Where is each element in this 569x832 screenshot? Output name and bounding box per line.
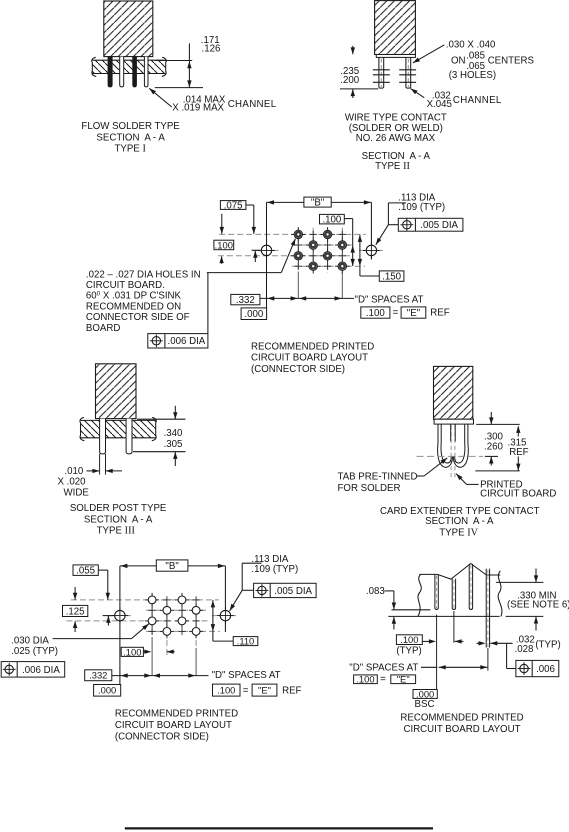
svg-text:.083: .083 <box>366 586 385 597</box>
svg-text:CONNECTOR SIDE OF: CONNECTOR SIDE OF <box>86 312 190 323</box>
centerline cross fig3 <box>310 252 317 259</box>
svg-text:.000: .000 <box>98 685 116 696</box>
leader .030 X .040 fig2 <box>413 45 445 63</box>
bottom datum dimension line fig3 <box>260 297 354 299</box>
connector base plate fig2 <box>376 55 415 58</box>
centerline cross fig3 <box>295 241 302 248</box>
dimension arrow top .340/.305 fig4 <box>174 406 176 419</box>
.083 leader fig7 <box>384 590 394 592</box>
svg-text:.100: .100 <box>123 646 141 657</box>
centerline cross fig6 <box>178 607 185 614</box>
leader to pin channel fig1 <box>149 88 172 107</box>
svg-text:RECOMMENDED PRINTED: RECOMMENDED PRINTED <box>115 709 238 720</box>
.000 datum box fig3 <box>241 308 267 320</box>
svg-text:.260: .260 <box>484 442 503 453</box>
.300/.260 dimension arrows fig5 <box>490 412 492 424</box>
pin width dimension arrows fig4 <box>87 470 100 472</box>
pcb hole fig6 <box>145 593 159 607</box>
.100 upper dimension box fig3 <box>320 214 345 224</box>
.330 MIN extension line fig7 <box>496 581 544 583</box>
column centerline 2 fig6 <box>166 604 168 655</box>
svg-text:(CONNECTOR SIDE): (CONNECTOR SIDE) <box>115 732 209 743</box>
pcb hole fig3 <box>335 259 350 274</box>
datum extension line right mounting hole fig3 <box>370 202 372 259</box>
svg-text:CIRCUIT BOARD LAYOUT: CIRCUIT BOARD LAYOUT <box>404 724 521 735</box>
svg-text:SECTION A - A: SECTION A - A <box>84 514 153 525</box>
.150 dimension box fig3 <box>379 271 404 281</box>
dimension arrows .235/.200 fig2 <box>352 46 354 54</box>
.000 datum box fig7 <box>413 690 437 699</box>
svg-text:RECOMMENDED ON: RECOMMENDED ON <box>86 301 181 312</box>
svg-text:CIRCUIT BOARD LAYOUT: CIRCUIT BOARD LAYOUT <box>251 353 368 364</box>
row centerline 1 fig6 <box>71 599 219 601</box>
leader tab pre-tinned fig5 <box>417 475 425 477</box>
column centerline 1 fig3 <box>297 228 299 272</box>
pcb hole fig6 <box>175 614 189 628</box>
svg-text:.085: .085 <box>466 50 485 61</box>
slot1 centerline extension fig7 <box>436 615 438 690</box>
centerline cross fig3 <box>310 231 317 238</box>
svg-text:.100: .100 <box>215 239 233 250</box>
.150 dimension line fig3 <box>359 235 361 276</box>
.075 dimension leader and arrows fig3 <box>246 204 254 206</box>
row centerline 3 fig6 <box>67 620 211 622</box>
svg-text:TYPE II: TYPE II <box>375 161 410 172</box>
svg-text:FOR SOLDER: FOR SOLDER <box>338 483 401 494</box>
svg-text:.305: .305 <box>164 439 183 450</box>
board break line left fig1 <box>92 57 97 76</box>
svg-text:.150: .150 <box>382 272 401 283</box>
.332 datum box fig3 <box>231 294 260 304</box>
contact finger left fig5 <box>438 424 453 467</box>
.100 spacing box fig6 <box>121 647 143 656</box>
arrow to mounting hole centerline fig6 <box>107 616 109 626</box>
svg-text:.100: .100 <box>322 215 341 226</box>
connector base plate fig5 <box>434 419 473 424</box>
connector body (hatched block) fig2 <box>375 1 416 55</box>
svg-text:=: = <box>380 674 386 685</box>
svg-text:.055: .055 <box>76 566 95 577</box>
.110 dimension line fig6 <box>212 600 214 641</box>
mounting hole right fig6 <box>217 607 234 624</box>
.125 dimension arrow fig6 <box>74 621 76 632</box>
board top edge polyline fig7 <box>419 564 500 580</box>
D spaces dimension line fig7 <box>421 666 437 668</box>
.330 MIN arrows fig7 <box>535 569 537 583</box>
board break line left fig7 <box>418 574 421 616</box>
extension line at contact tips fig5 <box>475 470 519 472</box>
column centerline 1 fig6 <box>151 593 153 637</box>
pcb hole fig3 <box>320 249 335 264</box>
mounting hole left fig6 <box>112 607 129 624</box>
pcb hole fig3 <box>291 227 306 242</box>
svg-text:CIRCUIT BOARD: CIRCUIT BOARD <box>480 489 556 500</box>
wire contact pin right fig2 <box>406 57 411 89</box>
svg-text:X .019 MAX: X .019 MAX <box>172 102 224 113</box>
horizontal centerline through contact mouth fig5 <box>417 455 484 457</box>
svg-text:"D" SPACES AT: "D" SPACES AT <box>212 670 281 681</box>
svg-text:.100: .100 <box>400 634 418 645</box>
svg-text:600 X .031 DP C'SINK: 600 X .031 DP C'SINK <box>86 291 182 302</box>
centerline cross fig6 <box>163 596 170 603</box>
column centerline 3 fig3 <box>327 228 329 273</box>
.125 dimension box fig6 <box>63 605 88 616</box>
svg-text:.125: .125 <box>66 606 85 617</box>
centerline cross fig6 <box>149 607 156 614</box>
board break line left fig4 <box>80 417 85 440</box>
pcb hole fig6 <box>189 624 203 638</box>
contact hole tick marks left pin fig2 <box>373 69 390 71</box>
board bottom edge fig7 <box>388 615 499 617</box>
row centerline 2 fig3 <box>292 244 353 246</box>
.100 upper dimension leader fig3 <box>344 218 352 220</box>
svg-text:"D" SPACES AT: "D" SPACES AT <box>355 294 424 305</box>
.100 left dimension arrows fig3 <box>221 256 223 263</box>
svg-text:.110: .110 <box>237 636 255 647</box>
svg-text:NO. 26 AWG MAX: NO. 26 AWG MAX <box>356 133 436 144</box>
extension line at pin tips fig4 <box>133 451 186 453</box>
svg-text:.006: .006 <box>536 664 555 675</box>
bottom datum dimension line fig6 <box>112 675 209 677</box>
slot4 centerline extension fig7 <box>487 648 489 671</box>
contact finger right fig5 <box>454 424 469 467</box>
svg-text:CHANNEL: CHANNEL <box>453 95 502 106</box>
leader for .113 dia holes fig6 <box>242 562 261 564</box>
board break line right fig1 <box>162 57 167 76</box>
svg-text:X .020: X .020 <box>58 476 87 487</box>
mounting hole centerline left fig6 <box>107 615 133 617</box>
svg-text:REF: REF <box>509 447 528 458</box>
board break line right fig4 <box>152 417 157 440</box>
.055 dimension leader and arrows fig6 <box>98 569 108 571</box>
svg-text:.075: .075 <box>224 200 243 211</box>
svg-text:=: = <box>393 307 399 318</box>
"E" box fig7 <box>391 675 416 684</box>
pcb hole fig3 <box>306 259 321 274</box>
pcb hole fig6 <box>145 614 159 628</box>
centerline cross fig6 <box>193 617 200 624</box>
svg-text:"B": "B" <box>311 198 325 209</box>
connector body (hatched block) fig1 <box>104 1 153 57</box>
svg-text:SECTION A - A: SECTION A - A <box>96 132 165 143</box>
svg-text:ON: ON <box>451 55 466 66</box>
"E" box fig3 <box>401 307 426 318</box>
svg-text:.022 – .027 DIA HOLES IN: .022 – .027 DIA HOLES IN <box>86 269 201 280</box>
.332 datum box fig6 <box>85 670 112 681</box>
centerline cross fig6 <box>178 628 185 635</box>
svg-text:.025 (TYP): .025 (TYP) <box>11 646 58 657</box>
svg-text:.030 X .040: .030 X .040 <box>446 40 496 51</box>
.055 dimension box fig6 <box>73 565 98 576</box>
svg-text:.109 (TYP): .109 (TYP) <box>251 564 298 575</box>
svg-text:.332: .332 <box>89 670 107 681</box>
column centerline 4 fig3 <box>341 228 343 272</box>
datum extension line left mounting hole fig6 <box>119 566 121 685</box>
.100 spacing arrows fig6 <box>143 651 149 653</box>
.100 spacing box bottom fig7 <box>354 675 378 684</box>
svg-text:.030 DIA: .030 DIA <box>11 636 49 647</box>
centerline cross fig3 <box>324 241 331 248</box>
.083 lower arrow fig7 <box>393 617 395 630</box>
.100 left dimension box fig3 <box>214 240 234 250</box>
contact hole tick marks right pin fig2 <box>399 69 416 71</box>
svg-text:CENTERS: CENTERS <box>488 55 535 66</box>
board break line right fig7 <box>498 571 502 617</box>
svg-text:.340: .340 <box>164 428 183 439</box>
svg-text:"E": "E" <box>397 674 410 685</box>
card slot centerline vertical (pc board edge) fig5 <box>450 426 452 479</box>
circuit board strip fig4 <box>80 420 155 437</box>
svg-text:.100: .100 <box>217 685 235 696</box>
row centerline 4 fig3 <box>292 265 365 267</box>
svg-text:TYPE IV: TYPE IV <box>439 528 478 539</box>
extension line at pin tips fig2 <box>340 88 379 90</box>
extension line at pin tips fig1 <box>155 87 203 89</box>
contact slot 4 fig7 (extended) <box>485 569 487 648</box>
extension line at block bottom fig4 <box>137 418 186 420</box>
.000 datum box fig6 <box>94 685 121 697</box>
svg-text:TYPE III: TYPE III <box>97 526 136 537</box>
"B" dimension line fig3 <box>267 201 304 203</box>
connector body (hatched block) fig5 <box>434 366 473 419</box>
svg-text:.109 (TYP): .109 (TYP) <box>398 202 445 213</box>
svg-text:.100: .100 <box>366 308 385 319</box>
svg-text:RECOMMENDED PRINTED: RECOMMENDED PRINTED <box>400 713 523 724</box>
"E" box fig6 <box>252 684 277 696</box>
svg-text:"E": "E" <box>258 685 271 696</box>
svg-text:X.045: X.045 <box>427 99 452 110</box>
svg-text:REF: REF <box>282 686 301 697</box>
svg-text:.010: .010 <box>64 466 83 477</box>
.315 REF dimension fig5 <box>517 426 519 436</box>
svg-text:TYPE I: TYPE I <box>114 144 146 155</box>
svg-text:.028: .028 <box>515 644 534 655</box>
svg-text:.000: .000 <box>244 309 263 320</box>
feature control frame .006 DIA fig6 <box>1 662 64 678</box>
row centerline 1 fig3 <box>219 233 366 235</box>
dimension line .171/.126 fig1 <box>188 43 190 87</box>
pcb hole fig3 <box>335 238 350 253</box>
leader from .030 DIA note fig6 <box>53 638 132 640</box>
"B" dimension label box fig3 <box>304 197 331 207</box>
board bottom edge left segment fig7 <box>392 609 431 611</box>
leader from hole note to hole fig3 <box>207 272 281 274</box>
centerline cross fig6 <box>163 617 170 624</box>
svg-text:.200: .200 <box>340 75 359 86</box>
mounting hole centerline tick fig6 <box>103 615 115 617</box>
contact slot 3 fig7 <box>469 564 472 610</box>
svg-text:.332: .332 <box>236 295 255 306</box>
svg-text:CHANNEL: CHANNEL <box>228 99 277 110</box>
pcb hole fig3 <box>306 238 321 253</box>
svg-text:WIDE: WIDE <box>64 487 90 498</box>
mounting hole right fig3 <box>363 242 380 259</box>
.100 typ spacing arrows fig7 <box>422 640 433 642</box>
svg-text:.006 DIA: .006 DIA <box>168 336 206 347</box>
svg-text:"E": "E" <box>407 308 421 319</box>
pcb hole fig6 <box>189 603 203 617</box>
svg-text:CIRCUIT BOARD LAYOUT: CIRCUIT BOARD LAYOUT <box>115 720 232 731</box>
svg-text:.006 DIA: .006 DIA <box>22 665 60 676</box>
feature control frame .006 DIA fig3 <box>148 334 208 348</box>
contact pin 2 fig1 <box>120 57 124 87</box>
svg-text:(SEE NOTE 6): (SEE NOTE 6) <box>507 599 569 610</box>
dimension arrow bottom .340/.305 fig4 <box>174 452 176 466</box>
svg-text:(CONNECTOR SIDE): (CONNECTOR SIDE) <box>251 364 345 375</box>
feature control frame .005 DIA fig3 <box>398 218 463 231</box>
row centerline 3 fig3 <box>218 255 351 257</box>
leader .032/X.045 fig2 <box>411 89 425 98</box>
svg-text:"D" SPACES AT: "D" SPACES AT <box>349 662 418 673</box>
svg-text:.126: .126 <box>202 44 221 55</box>
mounting hole centerline right fig3 <box>359 249 384 251</box>
pin edge extension lines fig4 <box>99 454 101 475</box>
svg-text:(TYP): (TYP) <box>396 645 421 656</box>
pcb hole fig6 <box>160 624 174 638</box>
extension line at plate bottom fig5 <box>476 423 520 425</box>
centerline cross fig6 <box>193 596 200 603</box>
leader drop to .006 frame fig7 <box>506 643 508 668</box>
.100 spacing box bottom fig6 <box>213 684 241 696</box>
svg-text:.005 DIA: .005 DIA <box>274 586 312 597</box>
leader for .113 dia holes fig3 <box>388 202 406 204</box>
contact pin 1 fig1 (sectioned, solid) <box>108 57 112 87</box>
column centerline 3 fig6 <box>181 593 183 627</box>
svg-text:BOARD: BOARD <box>86 323 120 334</box>
centerline cross fig6 <box>149 628 156 635</box>
contact pin 3 fig1 (sectioned, solid) <box>133 57 137 87</box>
slot2 centerline extension fig7 <box>453 611 455 643</box>
contact inner prong lines fig5 <box>450 424 452 441</box>
svg-text:SOLDER POST TYPE: SOLDER POST TYPE <box>70 503 167 514</box>
.100 spacing box fig3 <box>361 307 390 318</box>
mounting hole left fig3 <box>258 242 275 259</box>
svg-text:CIRCUIT BOARD.: CIRCUIT BOARD. <box>86 280 165 291</box>
svg-text:.100: .100 <box>356 674 374 685</box>
column centerline 4 fig6 <box>195 604 197 648</box>
svg-text:(TYP): (TYP) <box>535 639 560 650</box>
svg-text:TAB PRE-TINNED: TAB PRE-TINNED <box>338 472 418 483</box>
"B" dimension line fig6 <box>120 565 156 567</box>
.075 dimension box fig3 <box>220 201 246 210</box>
solder post pin right fig4 <box>126 419 132 454</box>
contact pin 4 fig1 <box>144 57 148 87</box>
centerline cross fig3 <box>339 252 346 259</box>
leader printed circuit board fig5 <box>467 483 479 485</box>
datum extension line right mounting hole fig6 <box>224 566 226 632</box>
pcb hole fig3 <box>291 249 306 264</box>
pcb hole fig3 <box>320 227 335 242</box>
svg-text:.005 DIA: .005 DIA <box>420 220 458 231</box>
mounting hole centerline right fig6 <box>212 615 239 617</box>
contact slot 2 fig7 <box>452 579 455 610</box>
mounting hole centerline left fig3 <box>255 249 280 251</box>
svg-text:BSC: BSC <box>415 699 435 710</box>
circuit board strip fig1 <box>92 60 165 73</box>
"B" dimension label box fig6 <box>156 560 188 571</box>
page footer rule <box>125 827 433 829</box>
centerline solid segment under arrow fig5 <box>485 455 498 457</box>
wire contact pin left fig2 <box>379 57 384 89</box>
connector body (hatched block) fig4 <box>96 364 137 419</box>
row centerline 2 fig6 <box>146 609 206 611</box>
svg-text:REF: REF <box>430 308 449 319</box>
svg-text:SECTION A - A: SECTION A - A <box>425 516 494 527</box>
.100 (TYP) box fig7 <box>396 635 422 645</box>
solder post pin left fig4 <box>100 419 106 454</box>
row centerline 4 fig6 <box>146 630 220 632</box>
feature control frame .006 fig7 <box>516 660 559 676</box>
centerline cross fig3 <box>324 263 331 270</box>
extension line at board top fig1 <box>156 60 193 62</box>
svg-text:WIRE TYPE CONTACT: WIRE TYPE CONTACT <box>345 113 447 124</box>
leader drop to feature frame fig3 <box>207 273 209 334</box>
centerline cross fig3 <box>295 263 302 270</box>
pcb hole fig6 <box>160 603 174 617</box>
contact slot 1 fig7 <box>435 574 438 609</box>
slot width .032/.028 arrows fig7 <box>477 642 484 644</box>
.110 dimension box fig6 <box>233 637 258 646</box>
pcb hole fig6 <box>175 593 189 607</box>
svg-text:"B": "B" <box>165 561 179 572</box>
svg-text:(3 HOLES): (3 HOLES) <box>449 70 496 81</box>
svg-text:RECOMMENDED PRINTED: RECOMMENDED PRINTED <box>251 342 374 353</box>
centerline cross fig3 <box>339 231 346 238</box>
svg-text:FLOW SOLDER TYPE: FLOW SOLDER TYPE <box>81 121 180 132</box>
svg-text:.000: .000 <box>416 688 434 699</box>
feature control frame .005 DIA fig6 <box>254 583 317 597</box>
svg-text:=: = <box>243 685 249 696</box>
column centerline 2 fig3 <box>312 228 314 273</box>
datum extension line left mounting hole fig3 <box>266 202 268 308</box>
